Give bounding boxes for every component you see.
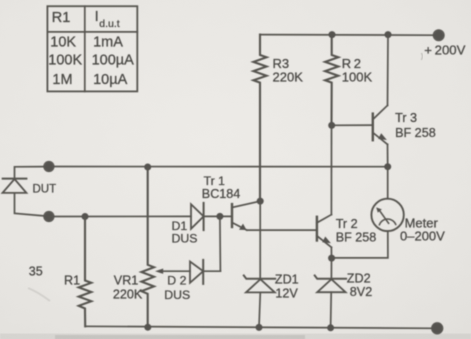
label R2 100K (342, 56, 373, 84)
wire: drop to D2 cathode (219, 216, 222, 271)
svg-text:220K: 220K (113, 288, 143, 302)
junction: bottom node / R1 (82, 213, 89, 220)
svg-text:Tr 2: Tr 2 (336, 217, 358, 231)
junction: rail / ZD1 (256, 324, 263, 331)
table R1 / I_dut : outer border (47, 6, 137, 91)
zener ZD1 12V (244, 201, 275, 327)
junction: rail / VR1 (144, 324, 151, 331)
junction: rail / Tr3 collector (385, 31, 392, 38)
table text: header I d.u.t (95, 8, 120, 30)
wire: long horizontal node (DUT top to meter column) (49, 166, 388, 168)
label VR1 220K (113, 273, 143, 301)
label Tr3 BF258 (395, 111, 436, 140)
zener ZD2 8V2 (315, 258, 346, 328)
svg-text:BC184: BC184 (202, 187, 241, 201)
svg-text:100µA: 100µA (92, 52, 135, 68)
svg-text:DUS: DUS (172, 232, 198, 246)
svg-text:R1: R1 (64, 274, 80, 288)
svg-text:1M: 1M (52, 72, 72, 88)
table text: row 100K / 100uA (48, 52, 134, 68)
bottom page-edge shadow (0, 334, 471, 339)
label 35 (29, 265, 43, 279)
label Tr1 BC184 (202, 174, 241, 201)
wire: Tr2 emitter to node (330, 247, 332, 258)
diode D1 DUS (191, 203, 232, 230)
svg-text:DUS: DUS (164, 288, 190, 302)
svg-text:Tr 1: Tr 1 (204, 174, 226, 188)
junction: R2 bottom / Tr3 base / Tr2 collector (328, 122, 335, 129)
svg-text:12V: 12V (275, 286, 298, 300)
wire: Tr1 emitter to Tr2 base (247, 229, 317, 231)
meter M 0-200V (332, 167, 404, 258)
label R1 (64, 274, 80, 288)
svg-text:100K: 100K (342, 69, 373, 84)
svg-text:35: 35 (29, 265, 43, 279)
svg-text:10K: 10K (50, 35, 76, 51)
svg-text:ZD2: ZD2 (347, 271, 371, 285)
svg-text:BF 258: BF 258 (336, 230, 377, 244)
wire: Tr3 emitter drop to node (387, 144, 389, 166)
wire: Tr3 collector drop (387, 35, 390, 106)
terminal: DUT top (44, 161, 54, 171)
VR1 wiper arrow (155, 269, 190, 274)
wire: bottom rail (85, 326, 433, 328)
label +200V (424, 43, 465, 58)
junction: D1 cathode / Tr1 base / D2 drop (216, 213, 223, 220)
label ZD2 8V2 (347, 271, 372, 298)
DUT diode symbol (3, 167, 45, 216)
terminal +200V (433, 30, 444, 41)
svg-text:I: I (95, 8, 99, 25)
resistor R2 (325, 35, 338, 126)
label D1 DUS (172, 219, 198, 246)
resistor R1 (79, 217, 92, 327)
junction: top wire / VR1 (144, 164, 151, 171)
junction: Tr1 collector / R3-ZD1 column (257, 198, 264, 205)
transistor Tr3 BF258 (373, 105, 388, 144)
terminal: DUT bottom (44, 211, 54, 221)
svg-text:8V2: 8V2 (350, 285, 372, 299)
label R3 220K (273, 56, 304, 84)
label ZD1 12V (275, 273, 299, 301)
diode D2 DUS (190, 260, 220, 284)
label D2 DUS (164, 274, 190, 303)
svg-text:+ 200V: + 200V (424, 43, 465, 58)
terminal: bottom right (432, 323, 443, 334)
table header divider (47, 31, 137, 33)
svg-text:220K: 220K (273, 69, 304, 84)
svg-text:100K: 100K (48, 52, 82, 68)
table text: row 10K / 1mA (50, 35, 123, 51)
svg-text:DUT: DUT (33, 183, 57, 195)
table text: header R1 (52, 10, 71, 26)
svg-text:R1: R1 (52, 10, 71, 26)
svg-text:d.u.t: d.u.t (99, 18, 120, 30)
table vertical divider (84, 6, 86, 91)
svg-text:VR1: VR1 (114, 273, 139, 287)
svg-text:10µA: 10µA (93, 72, 127, 88)
transistor Tr1 BC184 (232, 201, 260, 230)
junction: rail / ZD2 (327, 324, 334, 331)
label Tr2 BF258 (336, 217, 377, 244)
wire: Tr3 base from R2 junction (332, 124, 373, 126)
label DUT (33, 183, 57, 195)
junction: rail / R2 (329, 31, 336, 38)
transistor Tr2 BF258 (317, 215, 332, 248)
svg-text:1mA: 1mA (93, 35, 123, 51)
potentiometer VR1 (141, 167, 154, 327)
wire: DUT bottom node horizontal (49, 215, 191, 217)
junction: top wire / meter column (384, 163, 391, 170)
faint pencil streak near 35 (28, 288, 50, 301)
svg-text:D 2: D 2 (167, 274, 186, 288)
svg-text:ZD1: ZD1 (275, 273, 299, 287)
svg-text:BF 258: BF 258 (395, 126, 436, 140)
label Meter 0-200V (400, 215, 445, 243)
svg-text:Tr 3: Tr 3 (395, 111, 417, 125)
svg-text:0–200V: 0–200V (400, 229, 445, 244)
wire: R2 junction down to Tr2 collector (330, 125, 332, 214)
faint squiggle under +200V plus (421, 53, 423, 60)
wire: top +200V rail (260, 34, 434, 37)
resistor R3 (253, 35, 266, 202)
table text: row 1M / 10uA (52, 72, 127, 88)
junction: Tr2 emitter / ZD2 / meter return (328, 255, 335, 262)
